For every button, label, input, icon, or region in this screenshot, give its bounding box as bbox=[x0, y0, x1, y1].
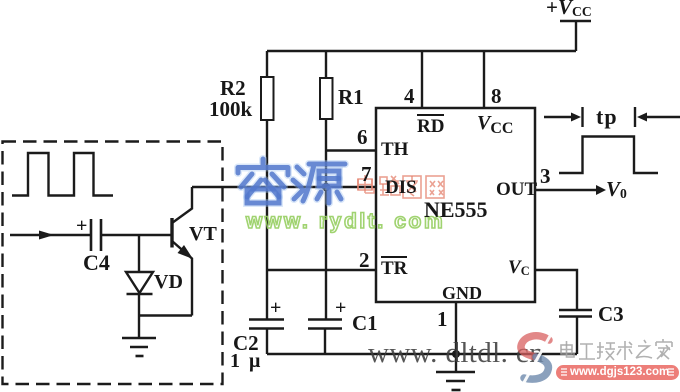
label VT bbox=[189, 223, 217, 246]
label C4 bbox=[83, 250, 110, 276]
resistor R1 bbox=[320, 51, 333, 187]
wire DIS horizontal (collector to pin 7) bbox=[192, 186, 376, 188]
label VC pin name bbox=[508, 257, 530, 279]
label C4 plus bbox=[76, 215, 87, 238]
logo banner text bbox=[570, 365, 666, 380]
wire R1 down to C1 bbox=[325, 187, 327, 320]
watermark gray www.dltdl.cn bbox=[368, 337, 544, 370]
label RD pin name bbox=[417, 114, 444, 138]
logo text gray Ji bbox=[597, 342, 615, 360]
label OUT pin name bbox=[496, 179, 537, 201]
label pin 3 bbox=[540, 164, 551, 189]
label pin 1 bbox=[437, 307, 448, 332]
input pulse waveform bbox=[12, 153, 113, 196]
tp right arrow bbox=[637, 113, 680, 122]
logo text gray Jia bbox=[656, 339, 672, 359]
label C2 value 1u bbox=[230, 350, 262, 373]
watermark green www.rydlt.com bbox=[246, 210, 445, 234]
wire OUT pin 3 bbox=[535, 185, 606, 195]
watermark blue glyph Rong bbox=[238, 159, 288, 203]
ground symbol left bbox=[122, 338, 156, 356]
tp right tick bbox=[634, 107, 636, 127]
node junction GND/rail bbox=[452, 350, 460, 358]
label R2 bbox=[220, 76, 246, 101]
label pin 6 bbox=[357, 125, 368, 150]
label GND pin name bbox=[442, 283, 482, 304]
label C2 plus bbox=[270, 297, 281, 320]
watermark red glyph Dian bbox=[358, 175, 374, 193]
watermark red glyph Lu bbox=[380, 176, 400, 195]
wire GND pin stub bbox=[455, 302, 457, 372]
node junction R1/DIS bbox=[322, 183, 330, 191]
label C1 bbox=[352, 311, 378, 336]
tp left tick bbox=[581, 107, 583, 127]
tp left arrow bbox=[544, 113, 581, 122]
transistor Q1 VT bbox=[172, 187, 193, 316]
logo banner red pill bbox=[556, 365, 679, 380]
label pin 8 bbox=[491, 84, 502, 109]
wire bottom ground rail bbox=[267, 353, 577, 355]
capacitor C1 bbox=[308, 320, 342, 355]
capacitor C4 bbox=[91, 219, 171, 251]
wire VC pin bbox=[535, 270, 577, 310]
label NE555 bbox=[424, 197, 488, 223]
dashed enclosure box bbox=[3, 142, 223, 385]
logo text gray Gong bbox=[579, 344, 595, 359]
label pin 4 bbox=[404, 84, 415, 109]
label C2 bbox=[233, 331, 259, 356]
capacitor C3 bbox=[559, 310, 592, 354]
wire pin 4 stub bbox=[421, 51, 423, 108]
label TR pin name bbox=[381, 256, 407, 280]
label TH pin name bbox=[381, 139, 408, 161]
label tp bbox=[596, 104, 618, 130]
logo text gray Zhi bbox=[636, 340, 652, 358]
label R1 bbox=[338, 85, 364, 110]
wire TR horizontal bbox=[267, 269, 376, 271]
watermark red glyph Wang bbox=[426, 176, 444, 198]
watermark blue glyph Yuan bbox=[293, 164, 345, 203]
label +VCC bbox=[546, 0, 592, 20]
label pin 2 bbox=[359, 248, 370, 273]
wire TH branch bbox=[326, 149, 376, 151]
capacitor C2 bbox=[249, 320, 284, 355]
wire input line with arrow bbox=[10, 231, 91, 240]
label V0 output bbox=[606, 177, 627, 202]
label pin 7 bbox=[361, 162, 372, 187]
label C3 bbox=[598, 302, 624, 327]
power +VCC terminal bbox=[560, 21, 591, 51]
label DIS pin name bbox=[385, 177, 417, 199]
ground symbol under pin 1 bbox=[436, 372, 475, 390]
label VCC pin name bbox=[477, 112, 513, 138]
logo blue S swirl bbox=[521, 336, 550, 386]
label VD bbox=[154, 271, 183, 294]
resistor R2 bbox=[261, 51, 274, 319]
wire pin 8 stub bbox=[483, 51, 485, 108]
watermark red glyph Tu bbox=[403, 176, 421, 198]
diode VD bbox=[126, 235, 153, 338]
op-amp U1 NE555 box bbox=[376, 108, 535, 302]
output pulse waveform bbox=[559, 137, 658, 174]
label C1 plus bbox=[335, 297, 346, 320]
wire emitter to diode bbox=[139, 314, 192, 316]
logo text gray Dian bbox=[561, 341, 574, 357]
logo text gray Shu bbox=[617, 341, 632, 360]
label 100k bbox=[209, 97, 252, 122]
wire top supply rail bbox=[267, 50, 576, 52]
